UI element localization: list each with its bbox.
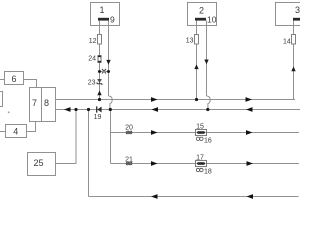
junction dots on cross link [98,70,101,73]
svg-text:18: 18 [204,169,212,176]
wire: box 25 to bus2 [56,110,77,164]
svg-text:15: 15 [196,123,204,130]
arrow left on line5 (right) [247,194,254,199]
svg-text:16: 16 [204,138,212,145]
wire: box2 right leg [206,21,208,97]
line4 (branch to element 17) [111,163,300,165]
box 2 [188,3,217,26]
wire: cross link between legs [100,71,109,73]
svg-text:24: 24 [88,56,96,63]
sensor 16 (two circles) [196,137,203,140]
component 24 [98,56,102,63]
arrow right on bus1 (left) [151,97,158,102]
resistor 12 [98,35,102,45]
arrow up on box1 left leg [97,91,101,96]
wire hop over bus1 (box1 right leg) [109,96,113,110]
svg-text:23: 23 [88,80,96,87]
lamp/cross symbol between legs [102,69,106,73]
svg-text:25: 25 [33,158,43,168]
svg-text:4: 4 [13,127,18,137]
box 6 [5,72,24,85]
svg-text:7: 7 [32,98,37,108]
wire: box2 left leg [196,21,198,100]
svg-text:13: 13 [186,38,194,45]
diode 19 on bus2 [97,106,102,112]
arrow up on box3 leg [291,67,295,72]
bus1 (supply bus) [56,99,296,101]
stray dot (punctuation mark) [8,111,10,113]
box 8 [42,88,56,122]
heater element 17 on line4 [196,160,207,166]
arrow right on line4 (right) [247,161,254,166]
wire: box3 leg [293,21,295,100]
arrow down on box1 right leg [106,60,110,65]
wire: left edge to box 4 [0,131,6,133]
svg-text:19: 19 [94,114,102,121]
wire: box1 left leg [99,21,101,100]
junction dot bus2/box25 branch [74,108,77,111]
resistor 14 [292,35,296,45]
box 1 [91,3,120,26]
arrow left on bus2 (middle) [152,107,159,112]
heating element 9 (block) [98,18,109,21]
box 7 [30,88,42,122]
svg-text:17: 17 [196,155,204,162]
svg-text:3: 3 [295,5,300,15]
wire: box 6 to box 7 top [24,80,37,88]
arrow up on box2 left leg [194,64,198,69]
box 4 [6,125,27,138]
svg-text:6: 6 [11,74,16,84]
arrow left on bus2 (right) [246,107,253,112]
sensor 18 (two circles) [196,168,203,171]
connector 20 symbol on line3 [126,131,132,134]
svg-text:8: 8 [44,98,49,108]
wire: vertical from bus2 down to line5 [88,110,90,197]
heater element 15 on line3 [196,129,207,135]
junction dot bus1/box2 [195,98,198,101]
svg-text:14: 14 [283,39,291,46]
wire: left edge to box 6 [0,79,5,81]
svg-text:20: 20 [125,125,133,132]
svg-text:10: 10 [207,15,217,25]
junction dot bus2/line5 branch [87,108,90,111]
wire: box1 right leg [108,21,110,97]
arrow left on bus2 (near box8) [64,107,71,112]
svg-text:12: 12 [89,38,97,45]
svg-text:21: 21 [125,156,133,163]
svg-text:1: 1 [99,5,104,15]
wire: vertical from bus2 to line4 [110,110,112,164]
zener diode 23 [97,80,102,85]
arrow right on line3 (right) [246,130,253,135]
arrow down on box2 right leg [204,60,208,65]
arrow right on line4 (left) [151,161,158,166]
box 3 [276,3,306,26]
arrow left on line5 (middle) [151,194,158,199]
junction dot bus2/box2 [206,108,209,111]
svg-text:2: 2 [199,6,204,16]
line3 (branch to element 15) [111,132,300,134]
line5 (bottom return line) [89,196,299,198]
connector 21 symbol on line4 [126,162,132,165]
resistor 13 [195,35,199,45]
junction dot bus1/box1 [98,98,101,101]
wire: box 4 to box 7 bottom [27,122,36,132]
heating element 10 (block) [195,18,206,21]
junction dot bus2/box1 [109,108,112,111]
wire hop over bus1 (box2 right leg) [207,96,211,110]
box 5 (cut off at left edge) [0,92,3,107]
box 25 [28,153,56,176]
arrow right on bus1 (right) [246,97,253,102]
arrow right on line3 (left) [151,130,158,135]
bus2 (return bus) [56,109,301,111]
svg-text:9: 9 [110,15,115,25]
heating element in box 3 (block) [293,18,302,21]
